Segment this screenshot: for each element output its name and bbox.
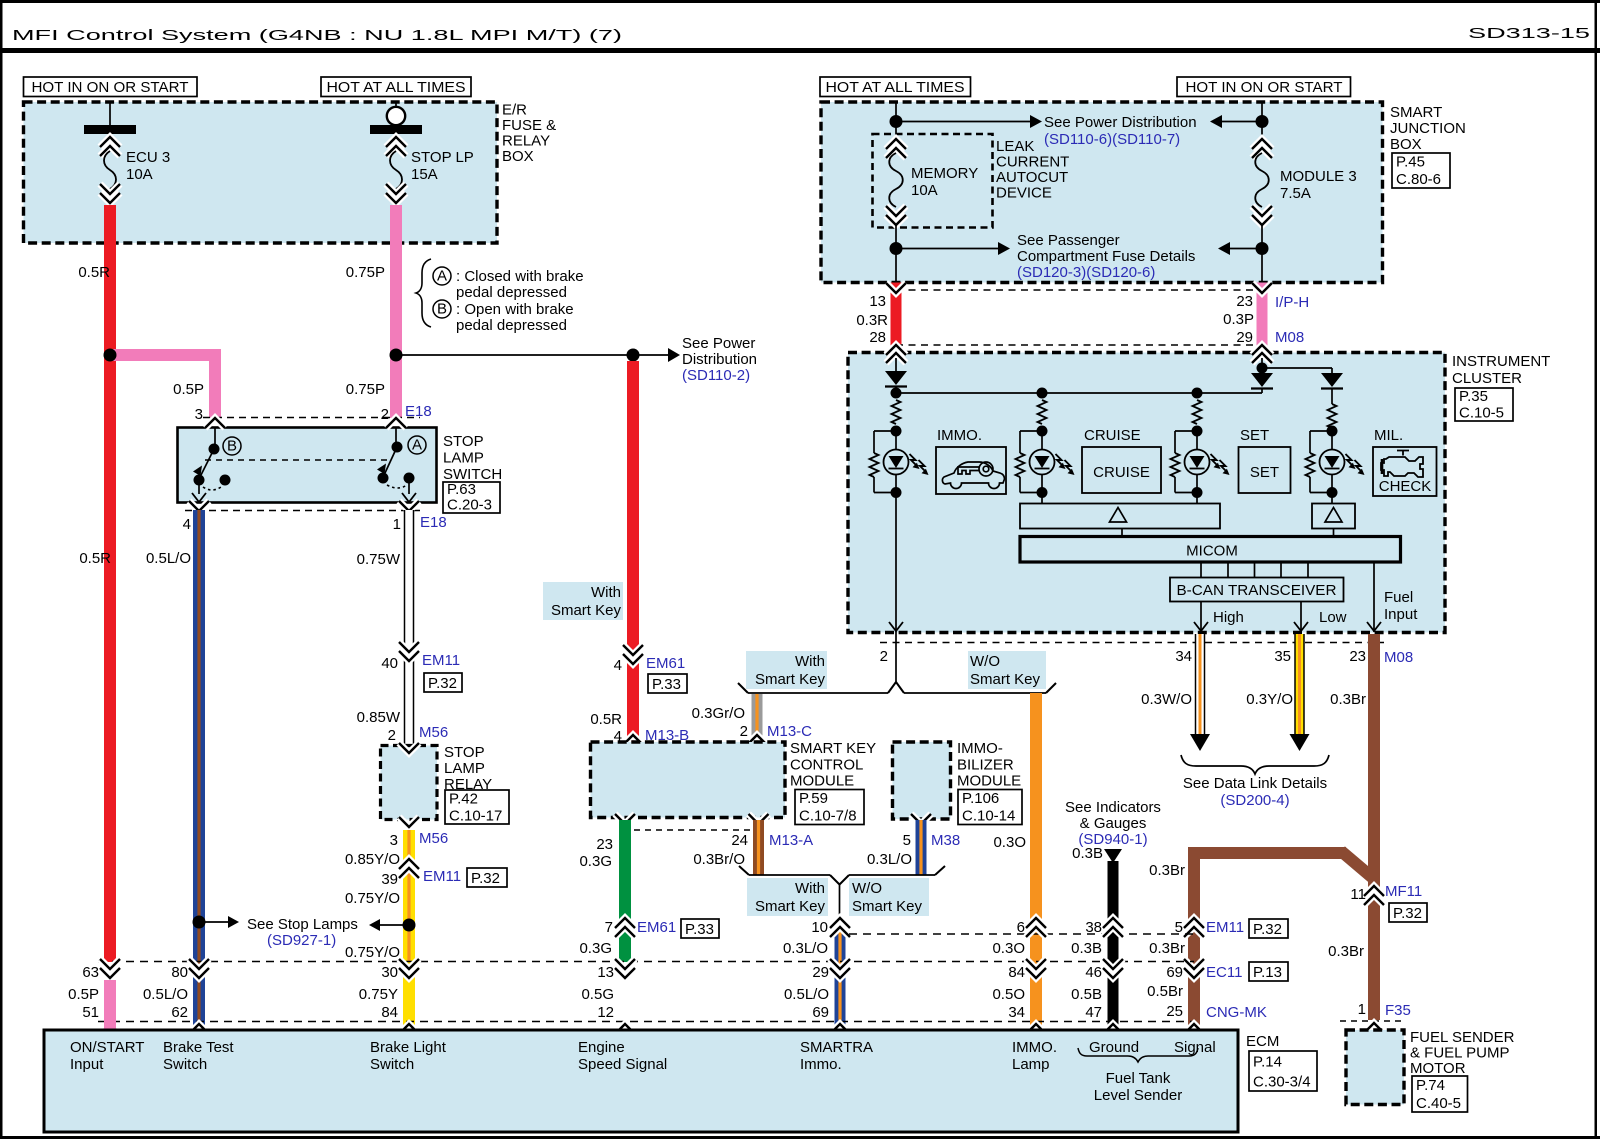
svg-text:0.3Br: 0.3Br [1149, 940, 1185, 957]
B-CAN High output line [1200, 602, 1202, 633]
pin 3 chevron [205, 418, 225, 428]
svg-text:A: A [412, 437, 422, 454]
see power distribution line [396, 354, 633, 356]
svg-text:0.75Y: 0.75Y [359, 986, 398, 1003]
chevron into fuel sender [1364, 1023, 1384, 1033]
svg-text:0.3Br: 0.3Br [1149, 862, 1185, 879]
row chevrons and labels at main row [100, 959, 120, 969]
svg-text:W/O: W/O [970, 653, 1000, 670]
svg-text:M13-C: M13-C [767, 723, 812, 740]
svg-text:0.5R: 0.5R [79, 550, 111, 567]
wire 0.3R from SJB to cluster [891, 283, 902, 354]
svg-text:34: 34 [1008, 1004, 1025, 1021]
svg-text:Brake Light: Brake Light [370, 1039, 447, 1056]
svg-text:30: 30 [381, 964, 398, 981]
branch line to MIL diode [1262, 367, 1332, 369]
svg-text:15A: 15A [411, 166, 438, 183]
fuse ECU 3 10A [109, 102, 111, 125]
svg-text:See Power Distribution: See Power Distribution [1044, 114, 1197, 131]
svg-text:84: 84 [381, 1004, 398, 1021]
svg-text:High: High [1213, 609, 1244, 626]
svg-text:BOX: BOX [502, 148, 534, 165]
MICOM to B-CAN stems [1200, 562, 1202, 578]
Y merge lines [749, 874, 830, 876]
svg-text:CRUISE: CRUISE [1093, 464, 1150, 481]
svg-text:29: 29 [812, 964, 829, 981]
svg-text:MOTOR: MOTOR [1410, 1060, 1466, 1077]
svg-text:F35: F35 [1385, 1002, 1411, 1019]
svg-text:0.5L/O: 0.5L/O [143, 986, 188, 1003]
svg-text:47: 47 [1085, 1004, 1102, 1021]
svg-text:2: 2 [388, 727, 396, 744]
svg-text:10A: 10A [126, 166, 153, 183]
svg-text:Brake Test: Brake Test [163, 1039, 234, 1056]
svg-text:CONTROL: CONTROL [790, 756, 863, 773]
svg-text:M38: M38 [931, 832, 960, 849]
svg-text:35: 35 [1274, 648, 1291, 665]
circled A in switch [408, 436, 426, 454]
svg-text:63: 63 [82, 964, 99, 981]
svg-text:BOX: BOX [1390, 136, 1422, 153]
stop lamp switch bottom dashed connector line [185, 510, 425, 512]
svg-text:0.3P: 0.3P [1223, 311, 1254, 328]
svg-text:Speed Signal: Speed Signal [578, 1056, 667, 1073]
svg-text:MICOM: MICOM [1186, 543, 1238, 560]
svg-text:P.45: P.45 [1396, 154, 1425, 171]
smart junction box [821, 102, 1383, 283]
brown branch corner [1341, 851, 1374, 879]
svg-text:1: 1 [1358, 1001, 1366, 1018]
svg-text:0.3B: 0.3B [1072, 845, 1103, 862]
check engine icon [1381, 451, 1423, 478]
connector EM61 pin 4 on red wire [623, 645, 643, 655]
svg-text:23: 23 [1349, 648, 1366, 665]
svg-text:SMARTRA: SMARTRA [800, 1039, 873, 1056]
svg-text:Smart Key: Smart Key [551, 602, 622, 619]
svg-text:EM11: EM11 [1206, 919, 1244, 936]
M08 connector dashed row below cluster [880, 642, 1384, 644]
svg-text:0.5R: 0.5R [78, 264, 110, 281]
stop lamp switch connector E18 top dashed line [203, 417, 420, 419]
car with key icon [942, 462, 1004, 489]
svg-text:29: 29 [1236, 329, 1253, 346]
svg-text:AUTOCUT: AUTOCUT [996, 169, 1068, 186]
svg-text:EM11: EM11 [423, 868, 461, 885]
connector EC11 pin 69 [1184, 959, 1204, 969]
svg-text:With: With [795, 880, 825, 897]
svg-text:0.3Br: 0.3Br [1328, 943, 1364, 960]
connector F35 pin 1 dashed row [1340, 1020, 1404, 1022]
svg-text:HOT IN ON OR START: HOT IN ON OR START [32, 79, 189, 96]
svg-text:10A: 10A [911, 182, 938, 199]
B-CAN TRANSCEIVER box [1170, 578, 1344, 602]
svg-text:P.35: P.35 [1459, 388, 1488, 405]
MICOM box [1020, 537, 1401, 563]
svg-text:M56: M56 [419, 830, 448, 847]
svg-text:LAMP: LAMP [443, 450, 484, 467]
pin 2 chevron [386, 418, 406, 428]
M13-A dashed connector row [623, 829, 752, 831]
wire 0.3W/O high-CAN [1196, 634, 1205, 734]
svg-text:0.5P: 0.5P [173, 381, 204, 398]
CRUISE lamp branch [1038, 400, 1047, 424]
svg-text:Distribution: Distribution [682, 351, 757, 368]
svg-text:10: 10 [811, 919, 828, 936]
svg-text:SMART KEY: SMART KEY [790, 740, 876, 757]
svg-text:STOP: STOP [443, 433, 484, 450]
svg-text:38: 38 [1085, 919, 1102, 936]
fuse MODULE 3 7.5A [1252, 148, 1272, 158]
svg-text:STOP: STOP [444, 744, 485, 761]
left page border [0, 3, 3, 1138]
svg-text:MODULE: MODULE [957, 773, 1021, 790]
green wire EM61 pin 7 connector [615, 927, 635, 937]
legend circled A [433, 267, 451, 285]
svg-text:SET: SET [1250, 464, 1279, 481]
svg-text:51: 51 [82, 1004, 99, 1021]
svg-text:JUNCTION: JUNCTION [1390, 120, 1466, 137]
svg-text:M13-A: M13-A [769, 832, 813, 849]
CRUISE indicator box [1082, 447, 1161, 493]
svg-text:Smart Key: Smart Key [970, 671, 1041, 688]
svg-text:P.32: P.32 [428, 675, 457, 692]
page frame top line [0, 0, 1600, 3]
svg-text:0.75P: 0.75P [346, 381, 385, 398]
svg-text:Smart Key: Smart Key [852, 898, 923, 915]
right branch line to orange [904, 692, 1046, 694]
svg-text:(SD110-6)(SD110-7): (SD110-6)(SD110-7) [1044, 131, 1180, 148]
wire 0.3Br from M08 pin 23 [1368, 634, 1380, 1020]
svg-text:CHECK: CHECK [1379, 478, 1432, 495]
svg-text:HOT AT ALL TIMES: HOT AT ALL TIMES [327, 79, 466, 96]
svg-text:P.33: P.33 [685, 921, 714, 938]
IMMO branch output arrow at cluster bottom [889, 622, 903, 631]
svg-text:SMART: SMART [1390, 104, 1442, 121]
module pin 24 chevron [749, 814, 769, 824]
svg-text:A: A [437, 268, 447, 285]
svg-text:STOP LP: STOP LP [411, 149, 474, 166]
wire 0.3Gr/O to M13-C [752, 694, 763, 742]
svg-text:CNG-MK: CNG-MK [1206, 1004, 1267, 1021]
svg-text:C.10-17: C.10-17 [449, 807, 502, 824]
wire 0.75Y below row into ECM [403, 962, 415, 1030]
svg-text:0.3Br/O: 0.3Br/O [693, 851, 745, 868]
svg-text:C.80-6: C.80-6 [1396, 171, 1441, 188]
fuse MEMORY 10A [886, 148, 906, 158]
svg-text:28: 28 [869, 329, 886, 346]
upper row chevrons [1026, 927, 1046, 937]
label HOT AT ALL TIMES (left) [321, 77, 471, 97]
right page border [1595, 3, 1598, 1138]
switch inner mechanical dashed link [205, 459, 390, 461]
P.59 C.10-7/8 ref box [795, 790, 864, 825]
P.42 C.10-17 ref box [445, 790, 509, 824]
svg-text:0.75Y/O: 0.75Y/O [345, 890, 400, 907]
svg-text:Switch: Switch [163, 1056, 207, 1073]
svg-text:C.10-14: C.10-14 [962, 808, 1015, 825]
svg-text:P.13: P.13 [1253, 964, 1282, 981]
svg-text:13: 13 [869, 293, 886, 310]
wire 0.3L/O from immobilizer pin 5 [916, 820, 927, 875]
MIL CHECK engine icon box [1373, 447, 1437, 496]
fuel tank level sender brace [1078, 1048, 1198, 1062]
svg-text:See Indicators: See Indicators [1065, 799, 1161, 816]
P.74 C.40-5 ref box [1412, 1076, 1468, 1112]
wire 0.3L/O SMARTRA [835, 920, 846, 1030]
svg-text:23: 23 [596, 836, 613, 853]
svg-text:(SD110-2): (SD110-2) [682, 367, 750, 384]
cluster entry chevron pink [1252, 353, 1272, 363]
memory fuse inner dashed box [873, 134, 993, 228]
svg-text:(SD120-3)(SD120-6): (SD120-3)(SD120-6) [1017, 264, 1155, 281]
wire 0.5R from ECU3 fuse down to ECM [104, 205, 116, 962]
svg-text:(SD927-1): (SD927-1) [267, 932, 336, 949]
SET indicator box [1239, 447, 1291, 493]
switch contact A side [395, 428, 397, 448]
P.14 C.30-3/4 ref box [1249, 1051, 1317, 1091]
immobilizer module box [893, 742, 951, 819]
svg-text:69: 69 [812, 1004, 829, 1021]
svg-text:0.75Y/O: 0.75Y/O [345, 944, 400, 961]
diode at pink entry [1261, 358, 1263, 368]
svg-text:IMMO.: IMMO. [1012, 1039, 1057, 1056]
svg-text:P.32: P.32 [1393, 905, 1422, 922]
svg-text:84: 84 [1008, 964, 1025, 981]
svg-text:C.30-3/4: C.30-3/4 [1253, 1074, 1311, 1091]
svg-text:Level Sender: Level Sender [1094, 1087, 1182, 1104]
svg-text:See Stop Lamps: See Stop Lamps [247, 916, 358, 933]
module 3 feed line with left arrow [1222, 121, 1262, 123]
wire 0.3B ground feed [1104, 849, 1122, 863]
svg-text:0.5L/O: 0.5L/O [146, 550, 191, 567]
svg-text:With: With [795, 653, 825, 670]
ECM box [44, 1030, 1238, 1132]
svg-text:40: 40 [381, 655, 398, 672]
svg-text:0.75W: 0.75W [357, 551, 401, 568]
junction dot on 0.5L/O with arrow to see stop lamps [193, 916, 206, 929]
svg-text:MODULE: MODULE [790, 773, 854, 790]
Fuel input line [1373, 562, 1375, 632]
svg-text:SD313-15: SD313-15 [1468, 25, 1590, 42]
svg-text:C.10-7/8: C.10-7/8 [799, 808, 857, 825]
immobilizer pin 5 chevron [911, 814, 931, 824]
svg-text:FUSE &: FUSE & [502, 117, 556, 134]
svg-text:E/R: E/R [502, 102, 527, 119]
svg-text:4: 4 [614, 657, 622, 674]
pin 4 chevron [189, 501, 209, 511]
svg-text:IMMO-: IMMO- [957, 740, 1003, 757]
svg-text:1: 1 [393, 516, 401, 533]
wire 0.3Br/O from module pin 24 [753, 820, 764, 875]
svg-text:pedal depressed: pedal depressed [456, 317, 567, 334]
svg-text:M08: M08 [1384, 649, 1413, 666]
junction on 0.5R wire [104, 349, 117, 362]
wire 0.5P into ECM [104, 980, 116, 1030]
svg-text:2: 2 [880, 648, 888, 665]
MIL lamp branch [1328, 404, 1337, 428]
svg-text:Switch: Switch [370, 1056, 414, 1073]
svg-text:6: 6 [1017, 919, 1025, 936]
svg-text:See Passenger: See Passenger [1017, 232, 1120, 249]
svg-text:Fuel: Fuel [1384, 589, 1413, 606]
svg-text:Smart Key: Smart Key [755, 671, 826, 688]
svg-text:Input: Input [70, 1056, 104, 1073]
branch split bevels [888, 682, 904, 693]
connector EM11 pin 39 [399, 868, 419, 878]
connector EM11 pin 5 on brown wire [1184, 927, 1204, 937]
svg-text:0.5R: 0.5R [590, 711, 622, 728]
With Smart Key highlight (center) [746, 651, 827, 689]
svg-text:0.3B: 0.3B [1071, 940, 1102, 957]
left branch line to M13-C [748, 692, 888, 694]
svg-text:(SD200-4): (SD200-4) [1220, 792, 1289, 809]
svg-text:0.3O: 0.3O [993, 834, 1026, 851]
svg-text:0.3R: 0.3R [856, 312, 888, 329]
svg-text:See Data Link Details: See Data Link Details [1183, 775, 1327, 792]
svg-text:P.14: P.14 [1253, 1054, 1282, 1071]
W/O Smart Key highlight (right) [968, 651, 1046, 689]
svg-text:: Closed with brake: : Closed with brake [456, 268, 584, 285]
svg-text:Input: Input [1384, 606, 1418, 623]
label HOT AT ALL TIMES (right) [820, 77, 971, 97]
connector row dashed (main) [98, 961, 1194, 963]
With Smart Key highlight (upper left) [543, 582, 623, 620]
svg-text:E18: E18 [420, 514, 447, 531]
smart key control module box [591, 742, 786, 818]
pin 1 chevron [399, 501, 419, 511]
svg-text:0.75P: 0.75P [346, 264, 385, 281]
svg-text:0.3Br: 0.3Br [1330, 691, 1366, 708]
svg-text:24: 24 [731, 832, 748, 849]
svg-text:MIL.: MIL. [1374, 427, 1403, 444]
wire 0.3P from SJB to cluster [1257, 283, 1268, 354]
indicator bar with triangle (cruise/set) [1020, 504, 1220, 529]
svg-text:0.3G: 0.3G [579, 853, 612, 870]
svg-text:3: 3 [390, 832, 398, 849]
see power distribution arrow line (SD110-6) [896, 121, 1030, 123]
svg-text:Compartment Fuse Details: Compartment Fuse Details [1017, 248, 1195, 265]
svg-text:LAMP: LAMP [444, 760, 485, 777]
svg-text:Low: Low [1319, 609, 1347, 626]
P.45 C.80-6 ref box [1392, 153, 1450, 188]
svg-text:IMMO.: IMMO. [937, 427, 982, 444]
svg-text:M08: M08 [1275, 329, 1304, 346]
stop lamp switch box [178, 428, 437, 503]
svg-text:0.3G: 0.3G [579, 940, 612, 957]
svg-text:Engine: Engine [578, 1039, 625, 1056]
svg-text:80: 80 [171, 964, 188, 981]
svg-text:P.33: P.33 [652, 676, 681, 693]
wire 0.3Y/O low-CAN [1295, 634, 1304, 734]
svg-text:ECM: ECM [1246, 1033, 1279, 1050]
svg-text:4: 4 [183, 516, 191, 533]
svg-text:0.5P: 0.5P [68, 986, 99, 1003]
svg-text:CLUSTER: CLUSTER [1452, 370, 1522, 387]
svg-text:P.59: P.59 [799, 790, 828, 807]
svg-text:Fuel Tank: Fuel Tank [1106, 1070, 1171, 1087]
P.106 C.10-14 ref box [958, 790, 1022, 825]
relay top pin chevron [399, 743, 419, 753]
svg-text:CRUISE: CRUISE [1084, 427, 1141, 444]
svg-text:0.3Gr/O: 0.3Gr/O [692, 705, 745, 722]
svg-text:RELAY: RELAY [502, 133, 550, 150]
wire 0.3Br left branch down to ECM signal [1188, 853, 1200, 1030]
cluster entry chevron red [886, 353, 906, 363]
data link brace [1181, 755, 1329, 774]
connector row dashed (upper) [849, 933, 1194, 935]
svg-text:INSTRUMENT: INSTRUMENT [1452, 353, 1550, 370]
junction on 0.75P wire [390, 349, 403, 362]
svg-text:ON/START: ON/START [70, 1039, 144, 1056]
svg-text:MODULE 3: MODULE 3 [1280, 168, 1357, 185]
cluster internal bus [896, 392, 1262, 394]
svg-text:Lamp: Lamp [1012, 1056, 1050, 1073]
SET lamp branch [1193, 400, 1202, 424]
svg-text:13: 13 [597, 964, 614, 981]
svg-text:Ground: Ground [1089, 1039, 1139, 1056]
svg-text:0.5B: 0.5B [1071, 986, 1102, 1003]
svg-text:39: 39 [381, 871, 398, 888]
svg-text:DEVICE: DEVICE [996, 185, 1052, 202]
label HOT IN ON OR START (right) [1177, 77, 1351, 97]
wire 0.5P branch vertical to stop lamp switch pin 3 [209, 355, 221, 418]
svg-text:7: 7 [605, 919, 613, 936]
svg-text:MF11: MF11 [1385, 883, 1422, 900]
svg-text:W/O: W/O [852, 880, 882, 897]
svg-text:LEAK: LEAK [996, 138, 1034, 155]
svg-text:B-CAN TRANSCEIVER: B-CAN TRANSCEIVER [1177, 582, 1337, 599]
svg-text:: Open with brake: : Open with brake [456, 301, 574, 318]
diode at red entry [895, 358, 897, 371]
wire 0.3G from module pin 23 [619, 820, 631, 962]
connector MF11 pin 11 [1364, 895, 1384, 905]
IMMO car-key icon box [936, 447, 1006, 494]
svg-text:BILIZER: BILIZER [957, 756, 1014, 773]
svg-text:0.3W/O: 0.3W/O [1141, 691, 1192, 708]
switch contact B side [214, 428, 216, 450]
svg-text:With: With [591, 584, 621, 601]
svg-text:0.3L/O: 0.3L/O [867, 851, 912, 868]
svg-text:P.106: P.106 [962, 790, 999, 807]
svg-text:FUEL SENDER: FUEL SENDER [1410, 1029, 1515, 1046]
svg-text:2: 2 [740, 723, 748, 740]
svg-text:0.5O: 0.5O [992, 986, 1025, 1003]
stop lamp relay box [381, 746, 438, 820]
svg-text:B: B [437, 301, 447, 318]
IMMO lamp branch (resistor, LED) [892, 400, 901, 424]
wire 0.5R to smart key control module [627, 361, 639, 746]
instrument cluster box [848, 353, 1445, 633]
svg-text:23: 23 [1236, 293, 1253, 310]
svg-text:P.42: P.42 [449, 790, 478, 807]
module pin 23 chevron green [615, 814, 635, 824]
junction dot on yellow wire with arrow to see stop lamps [403, 919, 416, 932]
svg-text:3: 3 [195, 406, 203, 423]
svg-text:& Gauges: & Gauges [1080, 815, 1147, 832]
svg-text:CURRENT: CURRENT [996, 154, 1069, 171]
svg-text:7.5A: 7.5A [1280, 185, 1311, 202]
indicator bar with triangle (MIL) [1312, 504, 1355, 529]
svg-text:0.5Br: 0.5Br [1147, 983, 1183, 1000]
svg-text:P.63: P.63 [447, 481, 476, 498]
svg-text:C.40-5: C.40-5 [1416, 1095, 1461, 1112]
wire 0.3O down to IMMO lamp [1030, 693, 1042, 1030]
P.63 C.20-3 ref box [443, 482, 500, 513]
wire 0.5P branch horizontal [110, 349, 221, 361]
bottom page border [0, 1136, 1600, 1139]
svg-text:HOT AT ALL TIMES: HOT AT ALL TIMES [826, 79, 965, 96]
svg-text:EC11: EC11 [1206, 964, 1242, 981]
